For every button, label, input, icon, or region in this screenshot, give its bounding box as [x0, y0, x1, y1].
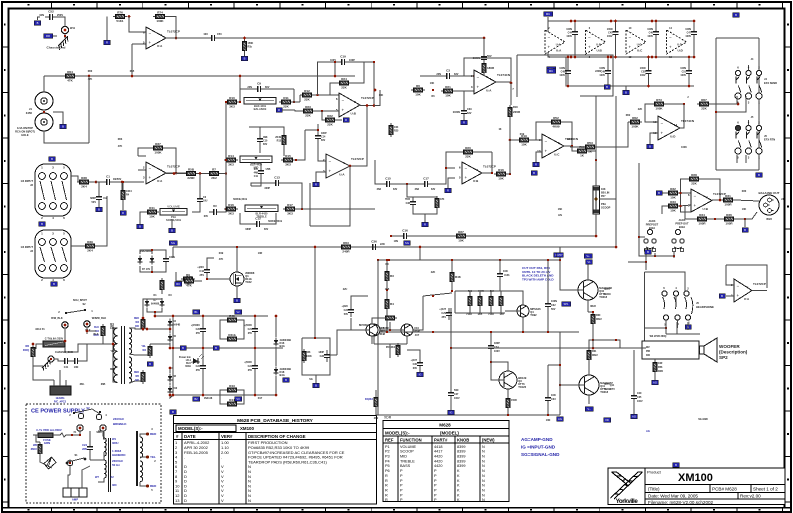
resistor R74 [153, 10, 167, 23]
wire [129, 17, 146, 33]
wire [648, 57, 650, 66]
svg-text:RED: RED [150, 484, 157, 488]
wire [386, 311, 388, 332]
junction [688, 56, 691, 59]
wire [260, 127, 284, 133]
ground R [106, 36, 108, 40]
junction dot psu [154, 315, 157, 318]
svg-text:SCOOP: SCOOP [601, 206, 611, 210]
svg-text:47K: 47K [118, 145, 123, 148]
ground R [315, 178, 317, 182]
svg-text:N: N [482, 455, 485, 459]
switch lever 2 [68, 458, 84, 462]
resistor R46 [302, 349, 306, 363]
AMP PC box dividers [70, 488, 72, 497]
svg-text:36B: 36B [101, 383, 106, 386]
svg-text:KNOB: KNOB [457, 438, 469, 443]
psu rail top [173, 315, 268, 317]
wire [655, 39, 657, 57]
MOSFET Q1 [230, 271, 255, 286]
capacitor C40 [473, 52, 488, 64]
headphone jack circles [662, 291, 691, 320]
wire [351, 62, 364, 83]
svg-text:DATE: DATE [184, 434, 196, 439]
resistor R21 [441, 85, 455, 98]
svg-text:R38: R38 [81, 176, 87, 180]
wire [265, 88, 294, 90]
wire [479, 308, 481, 313]
svg-text:10K: 10K [458, 239, 464, 243]
wire [172, 247, 174, 258]
inner border right [784, 8, 786, 508]
svg-text:1/4A ON/TOP: 1/4A ON/TOP [17, 126, 33, 130]
wire [207, 258, 214, 265]
svg-text:100V: 100V [566, 35, 572, 38]
net box B [283, 378, 290, 382]
wire [711, 103, 738, 105]
wire [574, 21, 576, 27]
svg-text:22K: 22K [341, 86, 347, 90]
wire [450, 400, 452, 408]
svg-text:XM100: XM100 [678, 472, 713, 484]
junction [314, 337, 316, 339]
ground [649, 140, 651, 144]
junction [607, 56, 610, 59]
wire [592, 340, 594, 348]
diode D9 [160, 299, 165, 308]
svg-text:60V: 60V [204, 215, 209, 218]
junction [451, 259, 453, 261]
wire [170, 343, 173, 348]
svg-text:680P: 680P [245, 228, 251, 231]
svg-text:EFX RTN: EFX RTN [764, 137, 775, 141]
wire [138, 355, 150, 358]
wire prepost bus [639, 163, 674, 256]
wire [380, 247, 420, 260]
svg-text:P6?: P6? [601, 195, 606, 198]
wire [275, 376, 277, 395]
svg-text:TL074CN: TL074CN [497, 73, 510, 77]
net RR box [44, 34, 53, 38]
net MU2 [544, 12, 553, 16]
diode D10 [168, 386, 173, 395]
capacitor C46 [653, 27, 659, 39]
wire [140, 434, 146, 437]
wire [680, 104, 684, 128]
net box [49, 157, 56, 161]
svg-text:360: 360 [135, 325, 140, 328]
svg-text:B: B [244, 57, 246, 61]
svg-text:B: B [625, 91, 627, 95]
svg-text:R: R [463, 121, 465, 125]
svg-text:Filename: m628-V2.00.sch2002: Filename: m628-V2.00.sch2002 [648, 500, 714, 505]
svg-text:1N4148: 1N4148 [204, 397, 213, 400]
svg-text:W7: W7 [95, 475, 99, 479]
resistor R52 [549, 116, 563, 129]
svg-text:R14: R14 [228, 154, 234, 158]
wire [239, 390, 244, 404]
svg-text:4420: 4420 [434, 464, 442, 468]
svg-text:+: + [342, 107, 345, 112]
svg-text:XM100: XM100 [240, 426, 254, 431]
svg-text:(MODEL): (MODEL) [440, 431, 459, 436]
svg-text:U:C: U:C [637, 49, 643, 53]
junction [547, 331, 549, 333]
wire [36, 435, 40, 442]
svg-text:R: R [385, 474, 388, 478]
svg-text:HOLE: HOLE [21, 133, 28, 137]
junction [509, 173, 511, 175]
svg-text:R52: R52 [553, 116, 559, 120]
wire [490, 353, 492, 362]
svg-text:B.NA: B.NA [679, 225, 685, 229]
wire [77, 75, 355, 77]
wire [202, 373, 204, 395]
woofer speaker symbol [700, 346, 705, 354]
diode D8 [168, 374, 173, 383]
top rail wire [548, 20, 694, 22]
wire [673, 253, 675, 256]
chassis ground hatch [57, 36, 71, 50]
wire [745, 155, 747, 163]
wire [448, 178, 455, 186]
wire [563, 122, 572, 146]
svg-text:Yorkville: Yorkville [616, 498, 639, 505]
svg-text:R: R [385, 493, 388, 497]
capacitor C50 [207, 35, 219, 41]
ground IG [419, 368, 421, 372]
svg-text:U:B: U:B [351, 112, 357, 116]
wire [69, 466, 71, 475]
svg-text:360U: 360U [112, 441, 118, 445]
svg-text:2K4: 2K4 [81, 185, 87, 189]
svg-text:150R: 150R [511, 399, 517, 402]
svg-text:4U7: 4U7 [415, 334, 420, 337]
svg-text:C20: C20 [196, 328, 201, 331]
wire [523, 331, 548, 333]
svg-text:R11: R11 [283, 96, 289, 100]
svg-text:60V: 60V [321, 139, 326, 142]
junction [334, 75, 337, 78]
wire [71, 176, 78, 182]
svg-text:J2: J2 [30, 183, 33, 187]
ground [483, 72, 485, 76]
ground [62, 120, 64, 124]
jack pre/post at 650 [647, 229, 652, 234]
wire [140, 482, 146, 486]
wire [275, 316, 277, 337]
svg-text:TO42: TO42 [245, 280, 252, 284]
svg-text:10K: 10K [498, 177, 504, 181]
capacitor C31 [497, 269, 510, 281]
junction dot [314, 246, 317, 249]
svg-text:C13: C13 [274, 176, 280, 180]
net box V1 [586, 260, 593, 264]
junction [366, 104, 368, 106]
svg-text:0R22: 0R22 [590, 305, 596, 308]
junction [491, 172, 493, 174]
svg-text:RCA ON B(POT): RCA ON B(POT) [15, 129, 35, 133]
svg-text:3523: 3523 [766, 217, 772, 221]
svg-text:47K: 47K [219, 258, 224, 261]
svg-text:Sheet 1 of 2: Sheet 1 of 2 [753, 487, 778, 492]
svg-text:N: N [482, 474, 485, 478]
wire [712, 199, 720, 201]
svg-text:Rev:v2.00: Rev:v2.00 [740, 494, 761, 499]
jack pre/post at 678 [675, 229, 680, 234]
resistor R7 [207, 167, 221, 180]
wire [349, 62, 374, 106]
resistor R40 [182, 275, 196, 288]
wire [33, 359, 54, 380]
junction [574, 20, 577, 23]
wire [166, 173, 184, 175]
wire loop [517, 55, 613, 96]
svg-text:10U: 10U [203, 33, 208, 36]
ground [463, 116, 465, 120]
wire [423, 293, 452, 296]
junction U4A out [510, 82, 513, 85]
wire squiggle [53, 433, 80, 437]
svg-text:+|4U7: +|4U7 [411, 359, 418, 362]
resistor R67 [697, 98, 711, 111]
wire [496, 81, 511, 83]
svg-text:4K99: 4K99 [567, 138, 573, 141]
diode D18 [274, 367, 291, 378]
junction dot psu [172, 347, 175, 350]
svg-text:22K: 22K [283, 105, 289, 109]
junction [432, 331, 434, 333]
junction [121, 181, 124, 184]
wire [330, 354, 337, 356]
resistor R50 [506, 396, 510, 410]
lower rail wire [566, 57, 694, 86]
transistor Q4 [517, 305, 541, 317]
junction [559, 259, 561, 261]
wire [161, 288, 163, 294]
svg-text:+: + [669, 44, 672, 49]
svg-text:GENERIC: GENERIC [112, 453, 127, 457]
wire [645, 262, 647, 270]
svg-text:R44: R44 [229, 398, 235, 402]
wire [97, 196, 107, 246]
svg-text:+: + [149, 175, 152, 180]
wire [500, 291, 502, 294]
junction dot psu [86, 330, 89, 333]
svg-text:3W0: 3W0 [658, 370, 664, 373]
svg-text:−: − [669, 35, 672, 40]
junction [373, 61, 375, 63]
wire [588, 311, 593, 313]
svg-text:REF: REF [385, 438, 394, 443]
resistor W6 [38, 442, 42, 456]
resistor R64 [63, 70, 77, 83]
svg-text:R: R [385, 488, 388, 492]
svg-text:8399: 8399 [457, 459, 465, 463]
svg-text:V3: V3 [236, 397, 240, 401]
junction [574, 56, 577, 59]
wire [103, 431, 104, 440]
capacitor C5 [163, 254, 169, 266]
wire [491, 362, 508, 371]
svg-text:BLK: BLK [94, 326, 99, 329]
resistor R45 [225, 314, 239, 322]
net box B left [531, 171, 537, 175]
resistor R9 [181, 273, 195, 286]
connector J5 EFX RTN [735, 120, 762, 160]
wire [735, 200, 759, 201]
RCA jack J1 top [35, 92, 53, 110]
wire [677, 320, 679, 328]
wire [536, 152, 542, 160]
dashed op-amp U6B [586, 30, 606, 54]
op-amp U4A [471, 70, 510, 94]
resistor cluster R67 [489, 294, 493, 308]
wire [251, 183, 271, 186]
svg-text:TO92: TO92 [530, 313, 537, 317]
resistor R23 [301, 105, 315, 118]
wire [490, 332, 492, 341]
wire [122, 182, 124, 188]
svg-text:10N: 10N [74, 366, 79, 369]
svg-text:R10: R10 [229, 96, 235, 100]
junction [679, 192, 681, 194]
svg-text:50V: 50V [344, 313, 349, 316]
wire woofer feed [451, 347, 646, 349]
resistor R13 [282, 133, 286, 147]
resistor W6b [31, 345, 35, 359]
svg-text:P1: P1 [385, 445, 390, 449]
wire [450, 348, 452, 388]
wire [360, 105, 374, 107]
diode D4 [168, 319, 173, 328]
svg-text:12AWG: 12AWG [55, 396, 64, 400]
svg-text:+: + [737, 293, 740, 298]
junction [301, 208, 303, 210]
lever pivots [65, 312, 67, 314]
svg-text:R41b: R41b [228, 333, 236, 337]
svg-text:R74: R74 [157, 10, 163, 14]
svg-text:N: N [482, 493, 485, 497]
wire [587, 300, 589, 312]
net box [235, 397, 242, 401]
wire [451, 260, 453, 270]
svg-text:4K99: 4K99 [552, 125, 560, 129]
junction [547, 259, 549, 261]
svg-text:R3: R3 [390, 274, 394, 278]
wire [33, 359, 43, 366]
svg-text:60V: 60V [263, 143, 268, 146]
rail wire y260 [378, 259, 560, 261]
svg-text:B: B [149, 362, 151, 366]
wire [547, 365, 549, 393]
capacitor C15 [382, 177, 394, 188]
svg-text:R21: R21 [445, 85, 451, 89]
svg-text:R65: R65 [478, 313, 483, 316]
svg-text:C3: C3 [446, 69, 450, 73]
capacitor C47 [691, 27, 697, 39]
connector J5 HEADPHONE group [0, 0, 1, 1]
wire [665, 322, 667, 334]
svg-text:YEL: YEL [141, 345, 146, 348]
wire [140, 250, 166, 254]
wire [509, 140, 511, 174]
switch lever [66, 310, 85, 313]
junction dot psu [169, 367, 172, 370]
svg-text:R64: R64 [67, 70, 73, 74]
wire [122, 202, 124, 210]
resistor R32 [666, 187, 680, 200]
psu rail bottom [173, 394, 276, 396]
chassis hatch [41, 360, 52, 371]
wire [310, 166, 350, 226]
wire vert frame R [758, 38, 760, 170]
fuse F1 body [43, 341, 65, 347]
junction [386, 289, 388, 291]
wire [44, 75, 64, 77]
svg-text:R57: R57 [558, 253, 563, 257]
wire [389, 322, 391, 330]
dashed op-amp U6D [667, 30, 687, 54]
wire [567, 78, 569, 86]
svg-text:RED: RED [134, 371, 139, 374]
resistor R1b [243, 39, 247, 53]
wire [688, 57, 690, 66]
junction dot [254, 315, 257, 318]
resistor R16 [224, 203, 238, 216]
wire [375, 409, 377, 415]
svg-text:RED: RED [150, 432, 157, 436]
junction dot [243, 37, 246, 40]
junction dot [610, 20, 613, 23]
svg-text:RED: RED [134, 317, 139, 320]
wire [589, 340, 593, 348]
wire [633, 350, 635, 391]
wire [259, 146, 261, 153]
junction dot [570, 20, 573, 23]
wire [264, 213, 276, 224]
headphone brace [691, 297, 693, 314]
wire [103, 338, 110, 344]
svg-text:TL072CP: TL072CP [753, 282, 766, 286]
svg-text:D17: D17 [258, 397, 263, 400]
svg-text:3456: 3456 [26, 111, 33, 115]
resistor R20 [461, 146, 475, 159]
wire [282, 109, 295, 111]
junction dot [570, 56, 573, 59]
svg-text:B2: B2 [194, 397, 198, 401]
svg-text:35V: 35V [248, 332, 253, 335]
op-amp U4B [537, 134, 578, 158]
svg-text:U:A: U:A [486, 89, 492, 93]
svg-text:N: N [482, 479, 485, 483]
svg-text:100V: 100V [607, 35, 613, 38]
svg-text:C24: C24 [248, 365, 253, 368]
resistor R19 [517, 134, 531, 147]
svg-text:P2: P2 [385, 450, 390, 454]
wire [90, 452, 104, 460]
resistor R26 [435, 196, 439, 210]
svg-text:C19: C19 [340, 55, 346, 59]
resistor [383, 316, 397, 320]
wire [59, 378, 61, 386]
wire [607, 78, 609, 86]
wire [607, 57, 609, 66]
svg-text:W3 JP1B 360Q: W3 JP1B 360Q [650, 335, 667, 338]
svg-text:14: 14 [674, 123, 678, 127]
svg-text:R40: R40 [186, 275, 192, 279]
junction [71, 434, 73, 436]
